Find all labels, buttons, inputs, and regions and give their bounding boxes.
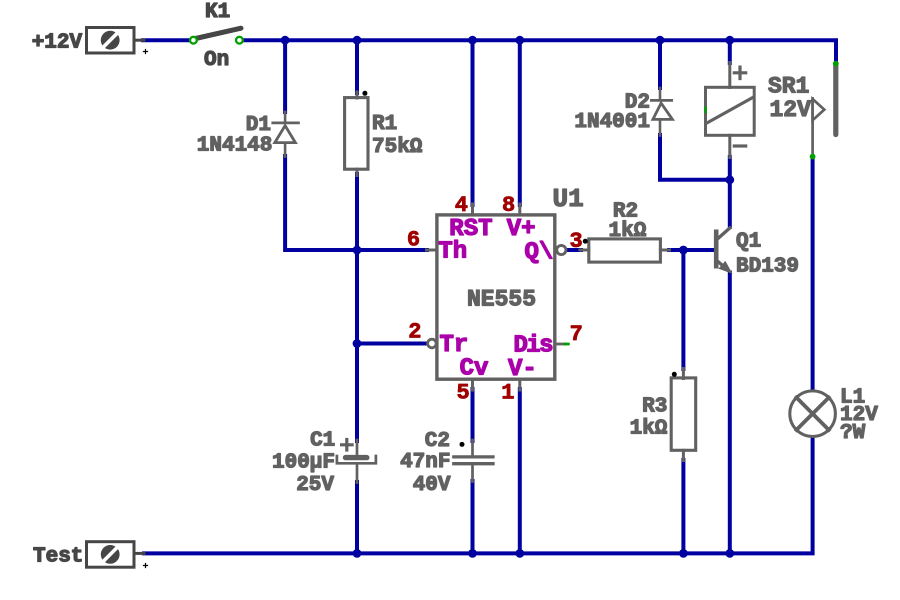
svg-text:1kΩ: 1kΩ: [609, 220, 647, 243]
svg-text:SR1: SR1: [768, 73, 809, 99]
wire relay coil bottom: [728, 157, 732, 180]
svg-text:3: 3: [570, 229, 583, 254]
node junction rail at C2: [468, 549, 477, 558]
wire C2 bottom to rail: [471, 481, 475, 553]
capacitor C2: [471, 440, 474, 455]
wire pin1 column to rail: [518, 389, 522, 553]
terminal Test box: [87, 542, 135, 568]
switch K1 left pin: [190, 37, 197, 44]
wire pin 7 green tip: [565, 343, 568, 346]
terminal Test screw: [101, 545, 120, 564]
svg-text:75kΩ: 75kΩ: [372, 136, 423, 159]
node junction D2/relay/collector: [725, 175, 734, 184]
wire R1 top: [355, 40, 359, 93]
transistor Q1 collector diagonal: [717, 228, 730, 240]
op-amp U1 NE555 box: [437, 215, 555, 379]
wire R3 top column: [681, 250, 685, 369]
svg-text:BD139: BD139: [736, 255, 799, 278]
diode D2: [651, 88, 672, 136]
node origin dot R3: [672, 372, 677, 377]
svg-text:7: 7: [570, 322, 583, 347]
node junction rail at R3: [679, 549, 688, 558]
svg-text:1: 1: [501, 380, 514, 405]
node origin dot C2: [460, 442, 465, 447]
relay SR1 coil: [728, 63, 731, 88]
svg-text:1kΩ: 1kΩ: [630, 418, 668, 441]
svg-text:Q1: Q1: [736, 231, 761, 254]
wire C1 bottom to rail: [355, 482, 359, 553]
terminal +12V box: [87, 28, 135, 54]
svg-text:+12V: +12V: [32, 31, 83, 54]
wire pin5 to C2: [471, 389, 475, 441]
node origin cross Test: [144, 564, 148, 568]
transistor Q1 emitter arrow: [720, 262, 731, 272]
lamp L1: [790, 391, 836, 437]
svg-text:47nF: 47nF: [400, 451, 450, 474]
svg-text:Cv: Cv: [460, 355, 489, 382]
wire relay coil top: [728, 40, 732, 63]
svg-text:C1: C1: [310, 429, 335, 452]
svg-text:Test: Test: [33, 546, 83, 569]
svg-text:6: 6: [407, 227, 420, 252]
capacitor C1: [356, 440, 359, 455]
wire D1 branch down: [283, 40, 287, 112]
node junction top rail at D2: [656, 36, 665, 45]
relay plus sign: [734, 67, 745, 78]
diode D1: [273, 112, 299, 157]
resistor R3: [682, 369, 685, 379]
relay SR1 green tick: [704, 108, 706, 112]
node junction base/R3: [679, 246, 688, 255]
wire R2 to base: [669, 248, 715, 252]
node origin cross +12V: [144, 50, 148, 54]
svg-text:12V: 12V: [770, 97, 812, 123]
wire Tr to pin2 bubble: [357, 342, 427, 346]
node green pin dot contact bottom: [810, 154, 816, 160]
svg-text:100µF: 100µF: [272, 452, 335, 475]
wire collector: [728, 180, 732, 227]
node junction top rail at relay coil: [725, 36, 734, 45]
capacitor C1 plus sign: [342, 440, 353, 451]
wire R1 bottom to C1: [355, 174, 359, 441]
wire top rail K1 to relay-contact corner: [243, 40, 837, 62]
svg-text:U1: U1: [553, 184, 584, 214]
svg-text:NE555: NE555: [467, 287, 536, 313]
node junction top rail at pin8: [515, 36, 524, 45]
pin 2 bubble: [428, 339, 437, 348]
wire D1 to Th pin6: [285, 156, 427, 250]
node origin dot R1: [362, 91, 367, 96]
node junction rail at C1: [353, 549, 362, 558]
node junction top rail at R1: [353, 36, 362, 45]
transistor Q1 emitter diagonal: [717, 261, 728, 270]
node junction top rail at D1: [281, 36, 290, 45]
svg-text:?W: ?W: [840, 422, 866, 445]
wire D2 bottom to relay-minus junction: [660, 135, 730, 180]
node junction rail at pin1: [515, 549, 524, 558]
relay contact bar: [833, 65, 838, 135]
relay contact lever: [811, 99, 814, 156]
svg-text:5: 5: [456, 380, 469, 405]
svg-text:K1: K1: [205, 1, 230, 24]
wire D2 top: [658, 40, 662, 88]
pin 3 bubble: [557, 245, 566, 254]
wire relay contact to lamp: [811, 158, 815, 392]
wire R3 bottom to rail: [681, 460, 685, 553]
wire pin 1 stub: [518, 379, 521, 390]
node junction Tr wire at R1/C1 column: [353, 339, 362, 348]
wire +12V terminal to K1: [143, 38, 191, 42]
terminal +12V screw: [101, 31, 120, 50]
wire pin 6 stub: [427, 249, 437, 252]
svg-text:25V: 25V: [296, 474, 334, 497]
svg-text:8: 8: [502, 193, 515, 218]
svg-text:R3: R3: [642, 395, 667, 418]
wire pin4 column: [471, 40, 475, 205]
wire pin 8 stub: [518, 204, 521, 215]
transistor Q1 base bar: [714, 232, 719, 266]
svg-text:Q\: Q\: [525, 240, 554, 267]
switch K1 lever: [196, 28, 242, 38]
node junction top rail at pin4: [468, 36, 477, 45]
svg-text:1N4148: 1N4148: [197, 134, 273, 157]
svg-text:2: 2: [408, 319, 421, 344]
relay minus sign: [734, 144, 745, 147]
wire pin 4 stub: [471, 204, 474, 215]
svg-text:V-: V-: [508, 356, 537, 383]
svg-text:40V: 40V: [413, 474, 451, 497]
wire pin3 to R2: [566, 248, 581, 252]
wire pin 5 stub: [471, 379, 474, 390]
svg-text:R1: R1: [372, 113, 397, 136]
resistor R1: [356, 92, 359, 98]
svg-text:C2: C2: [425, 430, 450, 453]
wire emitter to rail: [728, 273, 732, 554]
node green pin dot contact top: [833, 61, 839, 67]
wire lamp bottom to rail corner: [144, 437, 813, 554]
svg-text:Th: Th: [438, 238, 467, 265]
switch K1 right pin: [236, 37, 243, 44]
node junction rail at emitter: [725, 549, 734, 558]
svg-text:4: 4: [455, 193, 468, 218]
wire pin 7 stub: [555, 343, 565, 346]
svg-text:1N4001: 1N4001: [574, 111, 650, 134]
node junction Th wire at R1 column: [353, 246, 362, 255]
wire pin8 column: [518, 40, 522, 205]
node origin dot R2: [583, 239, 588, 244]
svg-text:On: On: [204, 49, 229, 72]
resistor R2: [580, 249, 589, 252]
